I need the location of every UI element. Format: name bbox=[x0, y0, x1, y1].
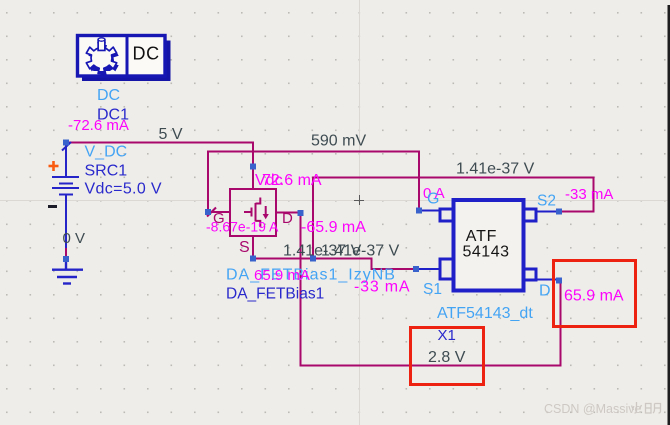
svg-text:S1: S1 bbox=[423, 281, 442, 298]
svg-text:0 V: 0 V bbox=[63, 230, 86, 247]
shadow bbox=[82, 41, 171, 82]
svg-text:V_DC: V_DC bbox=[85, 144, 128, 161]
node at FETBias S pin bbox=[250, 256, 256, 262]
svg-text:1.41e-37 V: 1.41e-37 V bbox=[321, 243, 400, 260]
svg-text:-8.67e-19 A: -8.67e-19 A bbox=[206, 219, 279, 235]
svg-text:54143: 54143 bbox=[463, 244, 510, 261]
svg-text:SRC1: SRC1 bbox=[85, 163, 128, 180]
svg-text:ATF: ATF bbox=[466, 228, 497, 245]
svg-text:590 mV: 590 mV bbox=[311, 133, 366, 150]
svg-text:D: D bbox=[282, 210, 293, 227]
window edge bar right bbox=[668, 5, 670, 425]
red highlight box around X1 2.8V bbox=[411, 328, 484, 385]
node at ATF S1 bbox=[413, 266, 419, 272]
lead D bbox=[536, 279, 557, 281]
node at FETBias D pin bbox=[298, 210, 304, 216]
voltage source SRC1 symbol bbox=[52, 142, 79, 248]
DC simulation controller block bbox=[78, 36, 171, 82]
svg-text:DA_FETBias1: DA_FETBias1 bbox=[226, 286, 324, 303]
node at ATF S2 bbox=[556, 209, 562, 215]
wire source net S1/S2 bbox=[253, 178, 594, 270]
ground symbol bbox=[52, 259, 83, 284]
gear icon bbox=[86, 38, 118, 76]
svg-text:S: S bbox=[239, 239, 250, 256]
pin box D bbox=[524, 269, 536, 280]
svg-text:-72.6 mA: -72.6 mA bbox=[68, 117, 129, 134]
svg-text:-33 mA: -33 mA bbox=[565, 186, 613, 203]
svg-text:65.9 mA: 65.9 mA bbox=[254, 267, 310, 284]
svg-text:72.6 mA: 72.6 mA bbox=[262, 172, 322, 189]
svg-text:65.9 mA: 65.9 mA bbox=[564, 288, 624, 305]
ATF54143 transistor block X1 bbox=[454, 200, 524, 291]
svg-text:Vdc=5.0 V: Vdc=5.0 V bbox=[85, 181, 162, 198]
svg-text:2.8 V: 2.8 V bbox=[428, 349, 466, 366]
svg-text:D: D bbox=[539, 283, 551, 300]
svg-text:S2: S2 bbox=[537, 193, 556, 210]
wire 5V net: source to FETBias Vdc pin bbox=[66, 143, 253, 167]
pin box S1 bbox=[440, 259, 453, 279]
node at source top bbox=[63, 140, 69, 146]
minus sign of SRC1 bbox=[48, 205, 57, 208]
wire 590mV net: FETBias G to ATF G bbox=[208, 152, 419, 213]
wire source bottom to ground bbox=[65, 248, 67, 259]
svg-text:5 V: 5 V bbox=[159, 126, 183, 143]
svg-text:DC: DC bbox=[97, 87, 120, 104]
axis line horizontal bbox=[0, 200, 668, 202]
lead G bbox=[421, 210, 440, 212]
svg-text:X1: X1 bbox=[438, 327, 456, 344]
svg-text:ATF54143_dt: ATF54143_dt bbox=[437, 305, 533, 322]
axis line vertical bbox=[359, 0, 361, 425]
lead S1 bbox=[418, 268, 440, 270]
node at ATF G bbox=[416, 208, 422, 214]
node junction S net bbox=[310, 256, 316, 262]
FET arrow head bbox=[263, 214, 269, 219]
watermark CJK glyphs bbox=[632, 402, 661, 413]
svg-text:-33 mA: -33 mA bbox=[354, 279, 410, 296]
pin box S2 bbox=[524, 209, 536, 221]
red highlight box around 65.9 mA bbox=[554, 261, 636, 327]
node at FETBias G pin bbox=[205, 209, 211, 215]
pin box G bbox=[440, 209, 453, 221]
lead S2 bbox=[536, 211, 557, 213]
plus sign of SRC1 bbox=[49, 161, 59, 171]
svg-text:1.41e-37 V: 1.41e-37 V bbox=[456, 161, 535, 178]
svg-text:CSDN @Massive: CSDN @Massive bbox=[544, 402, 641, 416]
node at ATF D bbox=[556, 278, 562, 284]
svg-text:G: G bbox=[427, 191, 439, 208]
origin cross marker bbox=[354, 195, 364, 205]
node at FETBias Vdc pin bbox=[250, 164, 256, 170]
node at source bottom bbox=[63, 256, 69, 262]
wire drain net bbox=[301, 213, 561, 366]
FET bias component DA_FETBias1 symbol bbox=[207, 166, 300, 258]
svg-text:DC: DC bbox=[133, 44, 160, 64]
svg-text:-65.9 mA: -65.9 mA bbox=[301, 219, 366, 236]
